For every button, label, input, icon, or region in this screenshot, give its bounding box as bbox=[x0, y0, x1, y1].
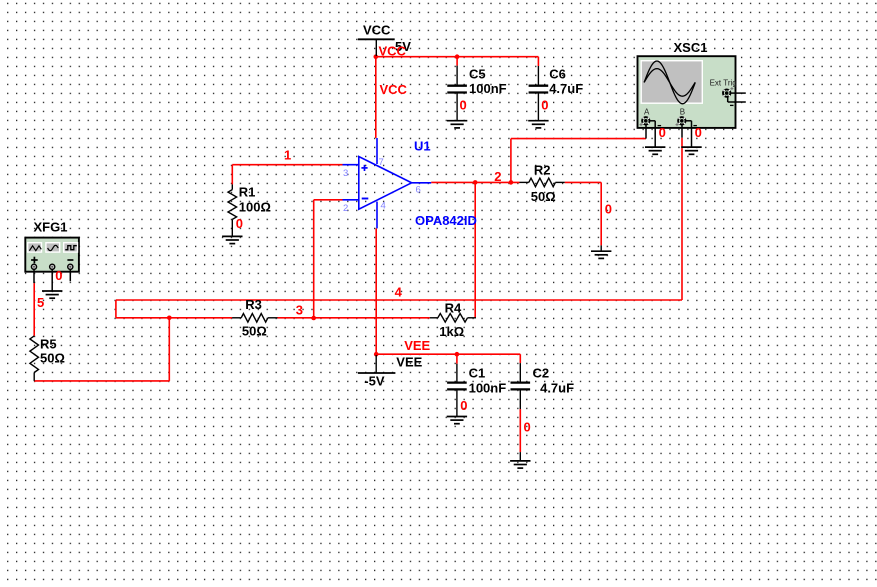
svg-text:0: 0 bbox=[236, 216, 243, 231]
svg-text:C2: C2 bbox=[533, 365, 550, 380]
svg-text:XSC1: XSC1 bbox=[674, 40, 708, 55]
svg-text:VCC: VCC bbox=[380, 82, 408, 97]
svg-text:R3: R3 bbox=[245, 297, 262, 312]
svg-text:C1: C1 bbox=[469, 365, 486, 380]
svg-text:4.7uF: 4.7uF bbox=[540, 380, 574, 395]
svg-text:VCC: VCC bbox=[363, 23, 391, 38]
svg-text:3: 3 bbox=[296, 302, 303, 317]
svg-text:R4: R4 bbox=[445, 300, 462, 315]
svg-text:7: 7 bbox=[379, 157, 384, 168]
svg-text:OPA842ID: OPA842ID bbox=[415, 213, 477, 228]
svg-text:C6: C6 bbox=[549, 66, 566, 81]
svg-text:6: 6 bbox=[416, 185, 421, 196]
svg-text:4: 4 bbox=[395, 284, 403, 299]
svg-text:U1: U1 bbox=[414, 139, 431, 154]
svg-text:B: B bbox=[680, 108, 685, 117]
svg-text:0: 0 bbox=[605, 202, 612, 217]
svg-text:VEE: VEE bbox=[404, 338, 430, 353]
svg-text:2: 2 bbox=[343, 203, 348, 214]
svg-text:3: 3 bbox=[343, 168, 348, 179]
svg-text:0: 0 bbox=[460, 398, 467, 413]
svg-text:1: 1 bbox=[284, 148, 291, 163]
svg-text:0: 0 bbox=[541, 97, 548, 112]
svg-text:50Ω: 50Ω bbox=[40, 351, 65, 366]
svg-text:0: 0 bbox=[524, 419, 531, 434]
svg-text:0: 0 bbox=[695, 125, 702, 140]
svg-text:VEE: VEE bbox=[396, 355, 422, 370]
svg-text:100nF: 100nF bbox=[469, 380, 507, 395]
svg-text:0: 0 bbox=[659, 125, 666, 140]
svg-text:A: A bbox=[644, 108, 650, 117]
svg-text:4: 4 bbox=[381, 201, 386, 212]
svg-text:Ext Trig: Ext Trig bbox=[710, 78, 737, 87]
svg-text:100nF: 100nF bbox=[469, 81, 507, 96]
svg-text:R2: R2 bbox=[534, 162, 551, 177]
svg-text:R5: R5 bbox=[40, 337, 57, 352]
svg-text:XFG1: XFG1 bbox=[34, 220, 68, 235]
svg-text:50Ω: 50Ω bbox=[531, 189, 556, 204]
svg-text:100Ω: 100Ω bbox=[239, 200, 271, 215]
svg-text:4.7uF: 4.7uF bbox=[549, 81, 583, 96]
svg-text:VCC: VCC bbox=[379, 44, 407, 59]
svg-text:0: 0 bbox=[460, 97, 467, 112]
svg-text:5: 5 bbox=[37, 295, 44, 310]
svg-text:1kΩ: 1kΩ bbox=[439, 324, 464, 339]
svg-text:C5: C5 bbox=[469, 66, 486, 81]
svg-text:50Ω: 50Ω bbox=[242, 323, 267, 338]
svg-text:R1: R1 bbox=[239, 185, 256, 200]
svg-text:2: 2 bbox=[494, 169, 501, 184]
svg-text:0: 0 bbox=[55, 268, 62, 283]
svg-text:-5V: -5V bbox=[364, 373, 385, 388]
